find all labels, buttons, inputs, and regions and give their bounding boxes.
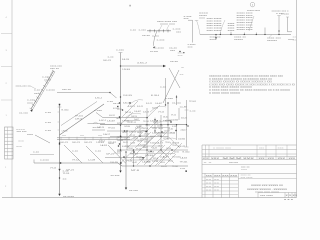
header tick group xyxy=(150,29,169,33)
strip mark 1 xyxy=(5,167,7,169)
junction node 22 xyxy=(139,136,140,137)
valve col mark 5 xyxy=(119,143,120,144)
svg-text:xxxxxx: xxxxxx xyxy=(267,40,278,42)
svg-text:xx: xx xyxy=(180,74,186,76)
top label row xyxy=(247,10,261,12)
line label 71 xyxy=(108,142,115,145)
svg-text:XXX: XXX xyxy=(278,158,287,160)
branch diagonal 13 xyxy=(125,128,137,140)
sloped rack run xyxy=(30,70,55,112)
manifold riser b xyxy=(219,32,221,35)
run H7 xyxy=(117,149,188,151)
svg-text:2: 2 xyxy=(5,186,7,188)
run B arrow label 1 xyxy=(63,171,70,173)
line label 85 xyxy=(143,128,149,130)
svg-text:3-B-114: 3-B-114 xyxy=(152,108,159,110)
svg-text:2-K-55: 2-K-55 xyxy=(148,138,154,140)
junction dot a xyxy=(215,34,216,35)
valve col mark 3 xyxy=(119,116,120,117)
line label 5 xyxy=(137,63,148,65)
branch diagonal 10 xyxy=(161,150,174,163)
junction node 8 xyxy=(146,130,147,131)
svg-text:X: X xyxy=(289,195,292,197)
rack band run xyxy=(57,137,130,141)
svg-text:1-A-203: 1-A-203 xyxy=(152,147,157,150)
svg-text:xx: xx xyxy=(63,179,69,181)
contract number text 2 xyxy=(241,169,248,171)
line label 16 xyxy=(108,128,116,130)
svg-text:1-W-304: 1-W-304 xyxy=(124,126,131,128)
H1 right label xyxy=(170,61,179,63)
branch diagonal 18 xyxy=(130,148,142,160)
line label 87 xyxy=(158,127,163,130)
line label 55 xyxy=(164,131,171,133)
svg-text:3-F-21: 3-F-21 xyxy=(60,142,69,144)
line label 60 xyxy=(152,161,159,163)
svg-text:XXXXXXX XXXX XXXXXX XXXXXXX XX: XXXXXXX XXXX XXXXXX XXXXXXX XX XXXXXX XX… xyxy=(209,76,284,78)
branch diagonal 11 xyxy=(168,136,180,148)
junction node 2 xyxy=(120,96,121,97)
line label 91 xyxy=(130,135,136,137)
fitting mark 4 xyxy=(161,131,162,132)
svg-text:3: 3 xyxy=(6,50,8,52)
run B top node xyxy=(59,104,61,106)
header below label a xyxy=(142,35,151,37)
line label 10 xyxy=(75,119,83,121)
header detail line xyxy=(147,30,171,32)
svg-text:EL 104-6: EL 104-6 xyxy=(145,125,150,127)
junction node 6 xyxy=(59,142,60,143)
svg-text:X XXXX XXXX XXXXX: X XXXX XXXX XXXXX xyxy=(209,93,241,95)
manifold riser 3 xyxy=(243,33,245,35)
line label 41 xyxy=(180,157,188,160)
rack label low xyxy=(27,100,36,105)
junction node 13 xyxy=(186,124,187,125)
svg-text:xxxx-xxx: xxxx-xxx xyxy=(50,66,63,68)
line label 76 xyxy=(158,112,165,114)
line label 97 xyxy=(170,133,176,135)
pipe run J vertical xyxy=(165,78,167,105)
block leader arc 2 xyxy=(249,16,254,31)
revision entry text xyxy=(213,148,285,150)
svg-text:4-SC-2: 4-SC-2 xyxy=(99,141,106,143)
line label 7 xyxy=(62,110,70,112)
vent tick xyxy=(286,16,289,18)
line label 106 xyxy=(128,148,134,150)
fitting mark 7 xyxy=(133,151,134,152)
short run Hd xyxy=(121,139,151,141)
line label 66 xyxy=(125,112,132,114)
drawing title line 3 xyxy=(255,192,281,194)
branch diagonal 2 xyxy=(135,132,151,148)
junction node 27 xyxy=(133,149,134,150)
svg-text:xxx-xx: xxx-xx xyxy=(62,89,72,91)
svg-text:1-C-88: 1-C-88 xyxy=(152,161,159,163)
valve col mark 6 xyxy=(123,156,124,157)
svg-text:xxxx: xxxx xyxy=(27,134,34,136)
line label 34 xyxy=(131,170,140,172)
line label 92 xyxy=(137,132,143,134)
svg-text:2-A-17: 2-A-17 xyxy=(143,146,149,149)
run B side label 2 xyxy=(45,122,52,124)
svg-text:XXXXX XXX XXXXX XX: XXXXX XXX XXXXX XX xyxy=(251,185,284,187)
svg-text:x-xx: x-xx xyxy=(152,35,161,37)
branch H3 label xyxy=(94,110,103,112)
svg-text:xx-xxx: xx-xxx xyxy=(172,102,182,104)
line label 77 xyxy=(146,103,153,105)
svg-text:xxxx: xxxx xyxy=(44,80,52,82)
svg-text:TP-101: TP-101 xyxy=(108,128,116,130)
line label 81 xyxy=(117,123,123,125)
line label 74 xyxy=(143,112,150,114)
line label 109 xyxy=(152,147,157,150)
rack band labels xyxy=(60,142,117,144)
svg-text:x x: x x xyxy=(204,162,215,164)
band drop diagonal 3 xyxy=(108,145,126,164)
line label 65 xyxy=(116,117,121,120)
svg-text:xxxx: xxxx xyxy=(210,39,218,41)
svg-text:NT-8: NT-8 xyxy=(117,123,123,125)
line label 31 xyxy=(180,162,189,164)
strip note text a xyxy=(16,129,27,131)
branch H2 label b xyxy=(62,89,72,91)
branch diagonal 5 xyxy=(158,144,172,158)
junction node 24 xyxy=(154,130,155,131)
svg-text:1-PT-20: 1-PT-20 xyxy=(117,109,123,111)
svg-text:TP-101: TP-101 xyxy=(165,142,171,144)
zone number 4 xyxy=(6,17,8,19)
branch H2 line xyxy=(57,93,117,99)
line label 56 xyxy=(157,126,164,128)
valve col mark 4 xyxy=(124,130,125,131)
branch diagonal 3 xyxy=(143,132,159,148)
line label 61 xyxy=(161,166,168,168)
line label 9 xyxy=(75,116,84,118)
fitting mark 12 xyxy=(171,149,172,150)
line label 101 xyxy=(144,142,149,144)
svg-text:2-A-17: 2-A-17 xyxy=(181,129,188,132)
line label 18 xyxy=(152,133,161,135)
run B node 2 xyxy=(59,177,60,178)
svg-text:X: X xyxy=(295,195,297,197)
svg-text:XXX: XXX xyxy=(243,158,256,160)
line label 130 xyxy=(168,161,174,163)
line label 11 xyxy=(107,121,116,123)
junction node 10 xyxy=(160,136,161,137)
line label 126 xyxy=(139,159,145,161)
svg-text:1-W-304: 1-W-304 xyxy=(178,139,186,141)
svg-text:1-E-407: 1-E-407 xyxy=(134,111,142,113)
svg-text:x-xx: x-xx xyxy=(95,151,102,153)
band drop diagonal 1 xyxy=(64,145,82,163)
line label 28 xyxy=(173,157,182,159)
line label 83 xyxy=(117,151,123,153)
line label 42 xyxy=(63,173,71,175)
line label 102 xyxy=(150,143,155,145)
short run Ha xyxy=(124,120,140,122)
line label 115 xyxy=(141,131,147,133)
line label 113 xyxy=(133,138,139,140)
svg-text:xx-xxx: xx-xxx xyxy=(111,175,121,177)
line label 67 xyxy=(99,120,107,122)
svg-text:xx: xx xyxy=(80,135,86,137)
short run Hh xyxy=(88,122,106,124)
svg-text:1-E-407: 1-E-407 xyxy=(136,126,143,128)
detail balloon xyxy=(250,2,255,7)
pipe run G vertical xyxy=(186,100,188,147)
line label 57 xyxy=(148,152,155,154)
line label 124 xyxy=(171,115,177,117)
short riser K xyxy=(176,95,178,105)
line label 99 xyxy=(130,143,136,145)
line label 3 xyxy=(123,95,133,97)
svg-text:1-PT-20: 1-PT-20 xyxy=(133,138,139,140)
svg-text:xxx: xxx xyxy=(178,55,184,57)
line label 1 xyxy=(122,59,130,61)
stray mark xyxy=(129,5,131,7)
line label 117 xyxy=(168,129,174,131)
junction dot b xyxy=(220,34,221,35)
svg-text:x-xx: x-xx xyxy=(130,30,137,32)
svg-text:2-EP-14: 2-EP-14 xyxy=(160,162,165,164)
line label 96 xyxy=(163,138,169,140)
line label 19 xyxy=(140,139,149,141)
svg-text:1-W-304: 1-W-304 xyxy=(145,155,154,157)
svg-text:2-A-17: 2-A-17 xyxy=(134,118,140,121)
signature entries xyxy=(206,179,221,192)
branch label xyxy=(157,40,166,42)
junction node 21 xyxy=(146,117,147,118)
svg-text:xx-xxxx: xx-xxxx xyxy=(63,196,75,198)
junction node 19 xyxy=(109,92,110,93)
svg-text:xx: xx xyxy=(293,40,299,42)
svg-text:2-EP-14: 2-EP-14 xyxy=(129,132,137,134)
junction dot d xyxy=(244,34,245,35)
zone number 2 xyxy=(6,83,8,85)
svg-text:x-xxx: x-xxx xyxy=(173,29,182,31)
junction node 11 xyxy=(160,149,161,150)
junction node 17 xyxy=(165,104,166,105)
A mid labels xyxy=(107,101,120,105)
branch diagonal 17 xyxy=(155,151,170,166)
svg-text:xx-xx: xx-xx xyxy=(229,162,240,164)
line label 75 xyxy=(152,108,159,110)
vent label bottom xyxy=(288,39,296,41)
svg-text:6-SC-31: 6-SC-31 xyxy=(161,166,168,168)
svg-text:x-xx: x-xx xyxy=(33,152,40,154)
drop leader 2 xyxy=(269,35,272,38)
line label 93 xyxy=(144,134,149,136)
manifold riser 6 xyxy=(278,16,280,35)
revision header row xyxy=(203,158,296,160)
sheet number below border xyxy=(284,199,295,201)
vee diagonal 2 xyxy=(169,68,180,88)
short run Hb xyxy=(150,127,170,129)
fitting mark 8 xyxy=(150,151,151,152)
line label 95 xyxy=(157,135,162,137)
svg-text:x-xx: x-xx xyxy=(45,122,52,124)
svg-text:x-xx: x-xx xyxy=(108,57,115,59)
run B side label 3 xyxy=(45,130,52,132)
svg-text:TP-101: TP-101 xyxy=(172,166,179,168)
header below label b xyxy=(152,35,161,37)
line label 24 xyxy=(106,154,115,156)
line label 23 xyxy=(122,146,130,148)
svg-text:xxx: xxx xyxy=(199,17,207,19)
svg-text:1-C-88: 1-C-88 xyxy=(130,143,136,145)
zone divider 1 xyxy=(1,33,12,35)
svg-text:1-W-304: 1-W-304 xyxy=(122,69,131,71)
manifold riser 2 xyxy=(230,32,232,35)
line label 54 xyxy=(138,145,146,147)
junction dot c xyxy=(230,34,231,35)
line label 105 xyxy=(172,145,178,147)
band top labels xyxy=(62,135,104,137)
svg-text:2-D-203: 2-D-203 xyxy=(166,148,171,150)
svg-text:x-xx: x-xx xyxy=(180,168,186,170)
pipe run D vertical xyxy=(146,108,148,160)
pipe run A end label xyxy=(111,175,121,177)
pipe run I vertical xyxy=(133,150,135,166)
run G tick label xyxy=(190,111,197,113)
line label 12 xyxy=(122,121,130,123)
line label 119 xyxy=(145,125,150,127)
band drop label 1 xyxy=(72,151,79,153)
svg-text:NT-8: NT-8 xyxy=(153,158,159,160)
manifold drop a xyxy=(215,35,217,39)
manifold riser 4 xyxy=(255,33,257,35)
svg-text:1-W-304: 1-W-304 xyxy=(171,120,179,122)
svg-text:X XXXXXX XXX XXXXXX XX XXXXXX: X XXXXXX XXX XXXXXX XX XXXXXX XXXX XX xyxy=(209,79,273,81)
main run H4 xyxy=(100,124,187,126)
svg-text:x-xxx: x-xxx xyxy=(139,30,148,32)
svg-text:1-PT-20: 1-PT-20 xyxy=(163,138,169,140)
line label 2 xyxy=(122,69,131,71)
svg-text:xx: xx xyxy=(16,146,24,148)
svg-text:1-E-407: 1-E-407 xyxy=(107,121,116,123)
svg-text:x-xx: x-xx xyxy=(190,111,197,113)
svg-text:1-C-88: 1-C-88 xyxy=(88,160,96,162)
run H8 xyxy=(105,157,145,159)
rack mid leader xyxy=(30,86,36,89)
manifold header line xyxy=(200,34,291,36)
svg-text:xx-xx: xx-xx xyxy=(169,48,178,50)
svg-text:2-EP-14: 2-EP-14 xyxy=(157,135,162,137)
general notes block xyxy=(209,76,295,95)
zone divider 2 xyxy=(1,66,12,68)
line label 84 xyxy=(136,126,143,128)
drawing title line 2 xyxy=(247,189,288,191)
short riser L xyxy=(178,108,180,120)
strip note text c xyxy=(16,146,24,148)
line label 70 xyxy=(99,141,106,143)
rack side labels xyxy=(42,77,52,82)
svg-text:3-F-21: 3-F-21 xyxy=(84,142,93,144)
junction node 4 xyxy=(120,149,121,150)
manifold stub 5 xyxy=(264,28,266,35)
riser A left label xyxy=(108,57,115,59)
svg-text:1-C-88: 1-C-88 xyxy=(166,120,172,122)
svg-text:2-A-17: 2-A-17 xyxy=(127,121,133,124)
header leader a xyxy=(160,25,163,30)
svg-text:xx-xxx: xx-xxx xyxy=(19,113,29,115)
pipe run E vertical xyxy=(160,115,162,150)
run B arrow mark 1 xyxy=(58,169,60,171)
line label 116 xyxy=(160,133,165,135)
branch diagonal 9 xyxy=(121,150,134,163)
fitting mark 2 xyxy=(170,121,171,122)
band drop label 2 xyxy=(95,151,102,153)
junction node 18 xyxy=(176,96,177,97)
svg-text:XXX: XXX xyxy=(230,176,238,178)
leader arc 2 xyxy=(150,106,166,112)
svg-text:2-A-17: 2-A-17 xyxy=(155,142,164,145)
svg-text:1-E-407: 1-E-407 xyxy=(117,137,122,139)
line label 22 xyxy=(178,146,187,148)
svg-text:x-xx: x-xx xyxy=(45,130,52,132)
svg-text:VT-12: VT-12 xyxy=(171,115,177,117)
branch end label xyxy=(150,48,165,53)
svg-text:VT-12: VT-12 xyxy=(156,121,162,123)
valve col mark 7 xyxy=(120,162,121,163)
junction node 9 xyxy=(146,149,147,150)
svg-text:xxx: xxx xyxy=(228,30,237,32)
svg-text:VT-12: VT-12 xyxy=(130,135,136,137)
svg-text:xxxxx: xxxxx xyxy=(234,39,244,41)
svg-text:NT-8: NT-8 xyxy=(125,112,132,114)
svg-text:1-E-407: 1-E-407 xyxy=(158,146,163,148)
run B side ticks xyxy=(58,112,60,130)
branch drop xyxy=(153,31,157,46)
svg-text:EL 104-6: EL 104-6 xyxy=(183,152,191,154)
svg-text:1-E-407: 1-E-407 xyxy=(144,134,149,136)
valve col mark 1 xyxy=(119,102,120,103)
svg-text:xxx: xxx xyxy=(176,32,182,34)
instrument label block 1 xyxy=(207,18,223,32)
branch diagonal 12 xyxy=(147,120,158,131)
svg-text:XXX: XXX xyxy=(259,158,266,160)
header leader b xyxy=(167,25,170,30)
signature grid header xyxy=(206,176,238,178)
svg-text:xx-xxx: xx-xxx xyxy=(129,190,139,192)
svg-text:NT-8: NT-8 xyxy=(131,170,140,172)
line label 38 xyxy=(181,129,188,132)
branch diagonal 15 xyxy=(150,145,165,160)
svg-text:xxxx-xxx xx: xxxx-xxx xx xyxy=(16,86,32,88)
line label 125 xyxy=(132,162,137,164)
svg-text:2-A-17: 2-A-17 xyxy=(103,133,111,136)
junction node 12 xyxy=(167,124,168,125)
long diagonal twin xyxy=(61,102,97,126)
junction dot f xyxy=(264,34,265,35)
release text cell xyxy=(204,162,215,164)
line label 64 xyxy=(109,115,116,117)
svg-text:1-C-88: 1-C-88 xyxy=(180,107,188,109)
svg-text:XXX: XXX xyxy=(222,158,245,160)
title area divider xyxy=(238,178,296,180)
line label 29 xyxy=(110,162,119,164)
leader arc 4 xyxy=(155,120,172,125)
pipe run H vertical xyxy=(125,152,127,189)
svg-text:3-F-21: 3-F-21 xyxy=(66,170,75,172)
strip note text b xyxy=(18,141,26,143)
svg-text:xxxxx xxxx: xxxxx xxxx xyxy=(237,29,254,31)
branch arrow xyxy=(153,47,155,49)
line label 122 xyxy=(156,121,162,123)
svg-text:x-xx: x-xx xyxy=(34,90,41,92)
long diagonal run xyxy=(60,104,105,135)
svg-text:XXXXXX XXXXXX - XXXXXXX: XXXXXX XXXXXX - XXXXXXX xyxy=(247,189,288,191)
